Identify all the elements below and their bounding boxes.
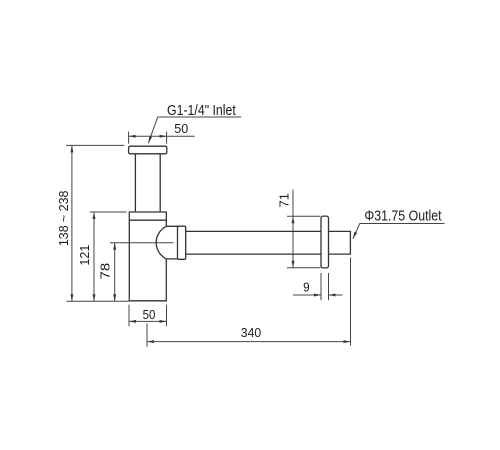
svg-text:138 ~ 238: 138 ~ 238 bbox=[56, 191, 71, 247]
svg-text:50: 50 bbox=[143, 307, 156, 322]
svg-text:50: 50 bbox=[174, 121, 188, 136]
svg-text:9: 9 bbox=[303, 280, 310, 295]
svg-text:340: 340 bbox=[241, 325, 261, 340]
svg-text:121: 121 bbox=[77, 245, 92, 266]
svg-text:G1-1/4" Inlet: G1-1/4" Inlet bbox=[167, 103, 236, 119]
svg-text:Φ31.75 Outlet: Φ31.75 Outlet bbox=[364, 208, 442, 225]
svg-text:78: 78 bbox=[98, 263, 113, 280]
svg-text:71: 71 bbox=[276, 193, 291, 208]
